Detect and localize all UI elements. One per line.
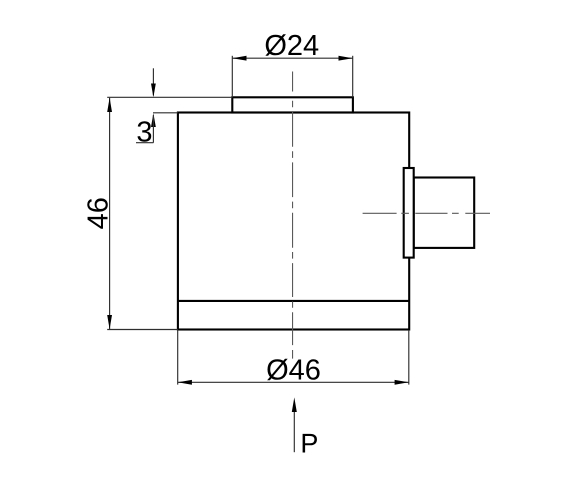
dim 46 top arrowhead — [107, 98, 112, 112]
dim Ø24 extension line left — [231, 56, 233, 98]
svg-text:46: 46 — [83, 197, 115, 229]
dim 46 bottom extension line — [107, 329, 178, 331]
dim Ø46 dimension line — [178, 381, 409, 383]
svg-text:P: P — [300, 429, 318, 459]
dim Ø24 left arrowhead — [232, 56, 246, 61]
dim 3 upper arrow leader — [152, 68, 154, 95]
dim 3 shelf line — [136, 142, 153, 144]
connector body — [414, 178, 475, 248]
dim 46 dimension line — [109, 98, 111, 329]
dim Ø46 right arrowhead — [395, 380, 409, 385]
horizontal centerline (connector axis) — [363, 212, 490, 214]
vertical centerline — [292, 72, 294, 359]
dim Ø46 extension line left — [177, 330, 179, 385]
dim Ø46 extension line right — [408, 330, 410, 385]
connector mounting flange — [404, 168, 414, 258]
dim 46 bottom arrowhead — [107, 315, 112, 329]
dim 3 lower arrowhead — [151, 113, 156, 127]
dim 46 top extension line — [107, 96, 232, 98]
dim 3 upper arrowhead — [151, 84, 156, 98]
dim Ø24 extension line right — [352, 56, 354, 98]
dim Ø24 dimension line — [232, 57, 352, 59]
load cell main body outline — [178, 113, 409, 330]
svg-text:Ø46: Ø46 — [266, 355, 321, 387]
load arrow P shaft — [293, 411, 295, 453]
dim Ø46 left arrowhead — [178, 380, 192, 385]
svg-text:Ø24: Ø24 — [264, 30, 319, 62]
dim 3 lower leader — [152, 115, 154, 143]
dim Ø24 right arrowhead — [339, 56, 353, 61]
svg-text:3: 3 — [136, 116, 152, 148]
dim 3 body-top extension line — [153, 112, 178, 114]
top boss (Ø24 spigot) — [232, 97, 353, 112]
bottom flange parting line — [178, 300, 409, 302]
load arrow P head — [292, 397, 297, 412]
